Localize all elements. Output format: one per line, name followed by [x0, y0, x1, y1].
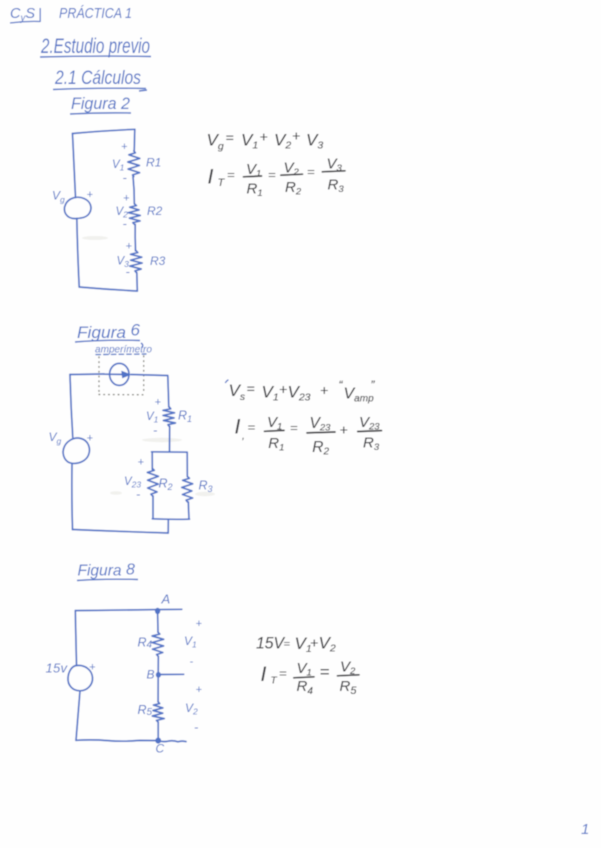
node B dot	[156, 672, 161, 678]
svg-text:=: =	[248, 420, 256, 435]
voltage source Vg	[63, 438, 89, 463]
svg-text:B: B	[147, 668, 155, 682]
svg-text:=: =	[227, 167, 235, 182]
faint scan smudges (paper artifacts)	[82, 236, 215, 496]
svg-text:+: +	[340, 422, 348, 438]
svg-text:2.Estudio previo: 2.Estudio previo	[40, 35, 150, 58]
svg-text:+: +	[89, 662, 96, 674]
wire: R1 to R2	[133, 177, 134, 204]
wire: node A down to R4	[157, 611, 159, 633]
title: CyS| PRACTICA 1	[10, 5, 132, 24]
svg-text:1: 1	[581, 821, 589, 838]
svg-text:+: +	[155, 397, 162, 409]
wire: node B stub to the right	[158, 673, 184, 675]
wire: parallel block down to bottom wire	[167, 519, 169, 533]
wire: left down to source	[75, 611, 76, 666]
equation: Vs = V1 + V23 + "Vamp"	[229, 378, 376, 405]
wire: R4 to node B	[157, 656, 159, 674]
ammeter dotted box (pencil)	[99, 356, 147, 395]
svg-text:+: +	[126, 241, 133, 253]
svg-text:=: =	[247, 381, 255, 397]
svg-text:A: A	[161, 592, 171, 607]
node C dot	[155, 738, 161, 744]
wire: left branch upper	[151, 452, 153, 470]
svg-text:-: -	[136, 487, 141, 502]
title: Figura 6	[75, 321, 143, 348]
wire: bottom bar of parallel block	[152, 518, 189, 521]
svg-text:|: |	[38, 6, 42, 23]
wire: R5 to node C	[157, 722, 159, 741]
svg-text:PRÁCTICA 1: PRÁCTICA 1	[59, 5, 132, 22]
svg-text:2.1 Cálculos: 2.1 Cálculos	[54, 68, 141, 89]
wire: top (Vg to R1 branch)	[73, 129, 135, 133]
wire: R3 to bottom-right corner	[136, 273, 139, 292]
svg-text:Figura: Figura	[77, 323, 126, 342]
svg-text:=: =	[307, 164, 315, 179]
svg-text:=: =	[284, 639, 291, 651]
svg-text:,: ,	[242, 431, 245, 442]
svg-text:=: =	[290, 420, 298, 435]
svg-text:Figura: Figura	[78, 563, 122, 580]
svg-text:=: =	[226, 130, 234, 146]
svg-text:-: -	[123, 170, 128, 185]
resistor R2	[147, 469, 158, 496]
svg-text:+: +	[260, 129, 268, 145]
voltage source 15v	[68, 665, 93, 690]
svg-text:-: -	[153, 423, 158, 438]
svg-text:=: =	[279, 666, 287, 681]
title: Figura 8	[77, 562, 138, 581]
wire: right branch lower	[187, 502, 190, 519]
dashed underline of amperimetro	[96, 353, 146, 356]
resistor R2	[128, 204, 140, 225]
equation: Vg = V1 + V2 + V3	[207, 128, 324, 153]
wire: source up to top-left corner	[73, 134, 76, 198]
svg-text:T: T	[271, 676, 278, 687]
resistor R5	[152, 702, 164, 722]
svg-text:+: +	[121, 141, 128, 153]
wire: bottom	[73, 530, 169, 534]
svg-text:-: -	[123, 216, 128, 231]
wire: node B down to R5	[157, 675, 159, 702]
wire: top bar of parallel block	[152, 451, 188, 453]
svg-text:Figura 2: Figura 2	[71, 94, 131, 113]
node A dot	[155, 608, 160, 614]
title: 2.Estudio previo	[40, 35, 151, 58]
title: 2.1 Calculos	[53, 68, 147, 91]
svg-text:8: 8	[126, 562, 135, 579]
wire: left branch lower	[152, 496, 154, 519]
wire: bottom-left up to source	[77, 219, 79, 288]
wire: right branch upper	[186, 452, 188, 476]
svg-text:I: I	[261, 663, 267, 686]
wire: source down to bottom-left	[76, 691, 80, 741]
svg-text:-: -	[194, 720, 199, 735]
svg-text:+: +	[196, 684, 203, 696]
svg-text:C: C	[156, 742, 165, 756]
wire: ammeter to top-right corner, down to R1	[131, 375, 169, 408]
svg-text:+: +	[87, 189, 94, 201]
wire: R1 down to parallel block	[169, 426, 171, 451]
voltage source Vg	[64, 197, 90, 218]
wire: bottom (extends right past node C)	[76, 740, 186, 742]
equation: 15V = V1 + V2	[256, 634, 336, 656]
wire: right top into R1	[133, 129, 136, 151]
svg-text:-: -	[126, 264, 131, 279]
svg-text:+: +	[310, 635, 318, 651]
svg-text:+: +	[292, 128, 300, 144]
svg-text:15v: 15v	[46, 661, 69, 676]
svg-text:+: +	[279, 381, 287, 397]
svg-text:I: I	[208, 166, 214, 189]
resistor R3	[130, 251, 143, 273]
resistor R4	[152, 632, 164, 656]
equation: I = V1/R1 = V23/R2 + V23/R3	[235, 414, 382, 458]
wire: R2 to R3	[134, 224, 136, 251]
svg-text:+: +	[123, 193, 130, 205]
svg-text:=: =	[320, 663, 330, 682]
svg-text:+: +	[138, 457, 145, 469]
equation: IT = V1/R4 = V2/R5	[261, 659, 360, 698]
svg-text:=: =	[268, 167, 276, 182]
svg-text:+: +	[196, 618, 203, 630]
wire: bottom-left up to source	[71, 463, 74, 529]
equation: IT = V1/R1 = V2/R2 = V3/R3	[208, 156, 346, 200]
title: Figura 2	[70, 94, 131, 114]
svg-text:+: +	[320, 382, 328, 398]
svg-text:+: +	[87, 433, 94, 445]
svg-text:R3: R3	[150, 254, 166, 268]
svg-text:R2: R2	[147, 204, 163, 218]
svg-text:15V: 15V	[256, 634, 286, 653]
svg-text:6: 6	[131, 321, 141, 340]
resistor R1	[163, 407, 176, 426]
wire: top (extends right past node A)	[75, 609, 182, 610]
svg-text:R1: R1	[146, 156, 161, 170]
svg-text:-: -	[190, 656, 194, 668]
wire: top-left to ammeter	[70, 373, 104, 376]
wire: bottom	[79, 287, 137, 291]
ammeter A1 circle with arrow	[110, 363, 129, 385]
resistor R3	[182, 477, 193, 502]
resistor R1	[128, 151, 140, 177]
stray pen mark	[226, 380, 229, 383]
wire: source up to top-left corner	[70, 375, 73, 438]
svg-text:I: I	[235, 416, 241, 439]
